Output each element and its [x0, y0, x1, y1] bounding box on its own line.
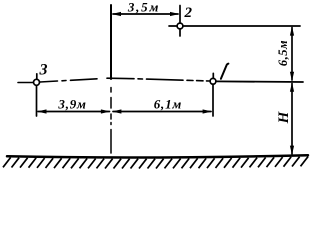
arrowhead right of 3,5м: [170, 12, 179, 16]
extension line below point 3: [36, 86, 38, 116]
right dimension line 6,5м (vertical): [291, 28, 293, 81]
point 1 circle: [210, 78, 216, 84]
svg-text:3,9м: 3,9м: [57, 97, 86, 112]
left tail of axis line through point 3: [18, 82, 33, 84]
dash-dot line from point 3 to point 1: [40, 78, 210, 82]
arrowhead top of 6,5м: [290, 26, 294, 35]
ground hatching: [3, 157, 308, 169]
centerline axis (vertical, solid upper part): [110, 5, 112, 79]
extension line below point 1: [212, 84, 214, 116]
svg-text:6,1м: 6,1м: [154, 97, 182, 112]
point 1 tick above: [212, 73, 214, 78]
arrowhead left of 6,1м: [112, 109, 121, 113]
extension line above point 2: [179, 6, 181, 23]
point 2 short line left: [169, 25, 177, 27]
line from point 1 to the right: [216, 80, 303, 83]
point 2 circle: [177, 23, 183, 29]
line from point 2 to the right: [183, 25, 300, 27]
point 2 tick below: [179, 29, 181, 36]
svg-text:3: 3: [39, 62, 48, 79]
arrowhead top of Н: [290, 82, 294, 91]
point 3 circle: [34, 79, 40, 85]
centerline axis (vertical, dash-dot lower part): [110, 88, 112, 154]
arrowhead bottom of Н: [290, 146, 294, 155]
dimension line 6,1м: [113, 111, 211, 113]
right dimension line Н (vertical): [291, 84, 293, 155]
arrowhead right of 6,1м: [203, 109, 212, 113]
svg-text:2: 2: [184, 5, 193, 21]
svg-text:Н: Н: [276, 110, 292, 124]
arrowhead left of 3,5м: [112, 12, 121, 16]
ground line: [7, 155, 308, 157]
point 3 tick above: [36, 74, 38, 79]
label 1: [221, 64, 229, 79]
arrowhead bottom of 6,5м: [290, 72, 294, 81]
dimension line 3,5м: [113, 13, 178, 15]
dimension line 3,9м: [38, 111, 110, 113]
arrowhead left of 3,9м: [37, 109, 46, 113]
svg-text:3,5м: 3,5м: [127, 0, 160, 15]
svg-text:6,5м: 6,5м: [276, 40, 290, 66]
arrowhead right of 3,9м: [101, 109, 110, 113]
